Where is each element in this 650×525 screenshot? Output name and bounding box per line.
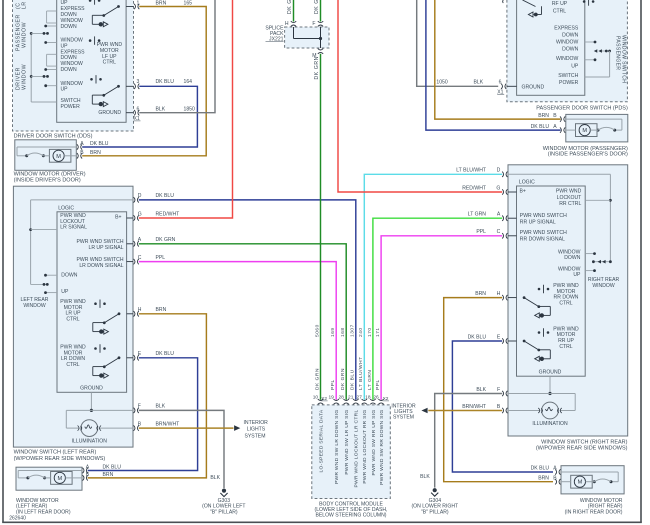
- RRS logic box: [517, 186, 586, 376]
- svg-text:19: 19: [328, 395, 334, 401]
- svg-text:LO-SPEED SERIAL DATA: LO-SPEED SERIAL DATA: [318, 409, 324, 472]
- RRS pin F: [506, 391, 507, 396]
- DDS pin 3: [126, 85, 133, 87]
- svg-text:B: B: [86, 472, 90, 478]
- RRS T contact RR DOWN: [543, 285, 545, 293]
- svg-text:WINDOW: WINDOW: [22, 64, 28, 90]
- svg-text:DOWN: DOWN: [61, 272, 77, 278]
- svg-text:BLK: BLK: [210, 475, 220, 481]
- svg-text:B: B: [553, 476, 557, 482]
- svg-text:DOWN: DOWN: [562, 33, 578, 39]
- svg-text:LOGIC: LOGIC: [58, 205, 74, 211]
- svg-text:B: B: [553, 113, 557, 119]
- svg-text:10: 10: [313, 395, 319, 401]
- svg-text:PWR WND: PWR WND: [556, 188, 582, 194]
- LRS pin F: [134, 408, 135, 413]
- svg-text:A: A: [497, 212, 501, 218]
- svg-text:POWER: POWER: [61, 104, 81, 110]
- LRS switch LR UP (pin H): [118, 312, 121, 315]
- svg-text:RR UP SIGNAL: RR UP SIGNAL: [520, 219, 556, 225]
- DDS pin 6: [126, 112, 133, 114]
- DDS T contact lower: [95, 75, 97, 83]
- svg-text:EXPRESS: EXPRESS: [554, 26, 579, 32]
- svg-text:RR DOWN SIGNAL: RR DOWN SIGNAL: [520, 236, 565, 242]
- svg-text:GROUND: GROUND: [539, 369, 562, 375]
- svg-text:BRN: BRN: [475, 291, 486, 297]
- svg-text:26: 26: [373, 395, 379, 401]
- passenger motor pin A: [564, 127, 565, 132]
- svg-text:DK BLU: DK BLU: [531, 124, 550, 130]
- svg-text:(INSIDE DRIVER'S DOOR): (INSIDE DRIVER'S DOOR): [14, 178, 81, 184]
- LRS pin B: [134, 425, 135, 430]
- svg-text:UP: UP: [573, 272, 581, 278]
- left rear motor pin A: [83, 468, 84, 473]
- svg-text:DK BLU: DK BLU: [468, 334, 487, 340]
- RRS window up contact: [585, 270, 594, 272]
- svg-text:UP: UP: [61, 289, 69, 295]
- svg-text:PWR WND LOCKOUT RR SIG: PWR WND LOCKOUT RR SIG: [362, 410, 368, 484]
- svg-text:WINDOW: WINDOW: [23, 303, 46, 309]
- LRS illumination lamp: [66, 409, 133, 411]
- PDS T contact: [588, 0, 590, 6]
- svg-text:LR DOWN SIGNAL: LR DOWN SIGNAL: [79, 263, 123, 269]
- passenger motor pin B: [564, 116, 565, 121]
- svg-text:BLK: BLK: [420, 474, 430, 480]
- svg-text:H: H: [497, 291, 501, 297]
- window switch (right rear) outer box: [508, 165, 628, 436]
- svg-text:B: B: [138, 421, 142, 427]
- svg-text:1307: 1307: [350, 324, 356, 337]
- wire PPL 169 LRS C to BCM pin19: [139, 262, 336, 400]
- svg-text:BRN: BRN: [90, 150, 101, 156]
- LRS T contact LR UP: [99, 300, 101, 308]
- svg-text:WINDOW: WINDOW: [556, 39, 579, 45]
- svg-text:(IN RIGHT REAR DOOR): (IN RIGHT REAR DOOR): [565, 509, 623, 515]
- svg-text:SYSTEM: SYSTEM: [393, 414, 414, 420]
- svg-text:DOWN: DOWN: [564, 255, 580, 261]
- svg-text:DOWN: DOWN: [61, 12, 77, 18]
- svg-text:LEFT REAR: LEFT REAR: [21, 297, 49, 303]
- svg-text:F: F: [497, 387, 500, 393]
- svg-text:SWITCH: SWITCH: [558, 73, 578, 79]
- svg-text:LIGHTS: LIGHTS: [247, 427, 266, 433]
- driver motor pin B: [77, 153, 78, 158]
- wire DK GRN 5060 splice M to BCM pin10: [320, 54, 322, 400]
- wire BRN RRS H to right rear motor B: [444, 298, 553, 482]
- window motor (passenger) box: [566, 114, 628, 141]
- RRS T contact RR UP: [543, 328, 545, 336]
- svg-text:D: D: [497, 168, 501, 174]
- svg-text:BLK: BLK: [476, 387, 486, 393]
- LRS logic box: [57, 212, 127, 392]
- svg-text:C: C: [138, 255, 142, 261]
- svg-text:GROUND: GROUND: [522, 84, 545, 90]
- svg-text:171: 171: [375, 327, 381, 337]
- svg-text:WINDOW: WINDOW: [22, 22, 28, 48]
- svg-text:(INSIDE PASSENGER'S DOOR): (INSIDE PASSENGER'S DOOR): [548, 152, 628, 158]
- svg-text:BELOW STEERING COLUMN): BELOW STEERING COLUMN): [315, 513, 386, 519]
- svg-text:6: 6: [499, 80, 502, 86]
- svg-text:165: 165: [184, 1, 193, 7]
- svg-text:PPL: PPL: [330, 379, 336, 390]
- splice pin M: [318, 49, 323, 50]
- svg-text:DK GRN: DK GRN: [287, 0, 293, 14]
- svg-text:B+: B+: [520, 188, 526, 194]
- RRS pin B: [506, 408, 507, 413]
- wire DK BLU 164 DDS pin3 to driver motor A: [82, 86, 197, 147]
- svg-text:28: 28: [338, 395, 344, 401]
- svg-text:DK GRN: DK GRN: [314, 368, 320, 390]
- svg-text:ILLUMINATION: ILLUMINATION: [72, 439, 108, 445]
- right rear motor pin B: [559, 479, 560, 484]
- svg-text:WINDOW SWITCH: WINDOW SWITCH: [621, 35, 627, 83]
- BCM pin 28 PWR WND SW LR UP SIG: [344, 403, 349, 404]
- wire BRN 165 DDS pin1 to driver motor B: [82, 7, 206, 156]
- svg-text:A: A: [138, 237, 142, 243]
- svg-text:DK GRN: DK GRN: [314, 0, 320, 14]
- svg-text:5060: 5060: [314, 324, 320, 337]
- PDS inner switch box: [517, 0, 585, 95]
- svg-text:PWR WND SWITCH: PWR WND SWITCH: [520, 230, 567, 236]
- svg-text:(W/POWER REAR SIDE WINDOWS): (W/POWER REAR SIDE WINDOWS): [536, 446, 628, 452]
- svg-text:DOWN: DOWN: [61, 67, 77, 73]
- svg-text:GROUND: GROUND: [80, 386, 103, 392]
- LRS pin G: [127, 217, 133, 219]
- svg-text:E: E: [138, 351, 142, 357]
- svg-text:H: H: [138, 307, 142, 313]
- svg-text:(W/POWER REAR SIDE WINDOWS): (W/POWER REAR SIDE WINDOWS): [14, 456, 106, 462]
- svg-text:PWR WND LOCKOUT LR CTRL: PWR WND LOCKOUT LR CTRL: [354, 410, 360, 488]
- BCM pin 19 PWR WND SW LR DOWN SIG: [334, 403, 339, 404]
- svg-text:BRN: BRN: [156, 307, 167, 313]
- svg-text:DK GRN: DK GRN: [156, 237, 176, 243]
- svg-text:PASSENGER: PASSENGER: [615, 36, 621, 70]
- wire DK GRN into splice F: [320, 0, 322, 22]
- svg-text:BRN/WHT: BRN/WHT: [462, 404, 486, 410]
- svg-text:BLK: BLK: [474, 80, 484, 86]
- svg-text:PASSENGER DOOR SWITCH (PDS): PASSENGER DOOR SWITCH (PDS): [536, 106, 628, 112]
- svg-text:PWR WND SW RR DOWN SIG: PWR WND SW RR DOWN SIG: [379, 410, 385, 485]
- right rear motor pin A: [559, 469, 560, 474]
- splice pin F: [318, 25, 323, 26]
- LRS pin D: [134, 197, 135, 202]
- wire BRN to passenger motor B: [435, 0, 561, 119]
- BCM pin 18 PWR WND SW RR UP SIG: [370, 403, 375, 404]
- RRS pin G: [508, 191, 517, 193]
- svg-text:240: 240: [358, 327, 364, 337]
- DDS switch for pin 1: [117, 5, 120, 8]
- DDS pin 1: [126, 6, 133, 8]
- svg-text:"B" PILLAR): "B" PILLAR): [421, 509, 449, 515]
- svg-text:G: G: [138, 211, 142, 217]
- splice pack JX221 box: [285, 27, 329, 48]
- svg-text:WINDOW MOTOR (DRIVER): WINDOW MOTOR (DRIVER): [14, 171, 86, 177]
- svg-text:18: 18: [365, 395, 371, 401]
- svg-text:DK BLU: DK BLU: [156, 79, 175, 85]
- RRS pin A: [508, 217, 517, 219]
- wire DK BLU RRS E to right rear motor A: [452, 341, 553, 472]
- svg-text:168: 168: [340, 327, 346, 337]
- svg-text:DRIVER DOOR SWITCH (DDS): DRIVER DOOR SWITCH (DDS): [14, 134, 93, 140]
- svg-text:B: B: [497, 404, 501, 410]
- BCM pin 27 PWR WND LOCKOUT RR SIG: [362, 403, 367, 404]
- svg-text:(IN LEFT REAR DOOR): (IN LEFT REAR DOOR): [16, 509, 71, 515]
- svg-text:BRN: BRN: [538, 113, 549, 119]
- svg-text:WINDOW SWITCH (RIGHT REAR): WINDOW SWITCH (RIGHT REAR): [541, 439, 628, 445]
- wire BLK LRS F to ground G303: [139, 410, 224, 488]
- svg-text:6: 6: [137, 106, 140, 112]
- svg-text:DK BLU: DK BLU: [531, 466, 550, 472]
- PDS B+ bus and contacts: [585, 41, 595, 43]
- svg-text:PPL: PPL: [375, 379, 381, 390]
- wire BLK 1050 to PDS pin6: [417, 0, 499, 86]
- svg-text:ILLUMINATION: ILLUMINATION: [532, 421, 568, 427]
- LRS pin A: [127, 243, 133, 245]
- svg-text:169: 169: [330, 327, 336, 337]
- ground G303: [222, 489, 226, 493]
- LRS T contact LR DOWN: [99, 344, 101, 352]
- svg-text:RED/WHT: RED/WHT: [156, 211, 180, 217]
- LRS switch LR DOWN (pin E): [118, 356, 121, 359]
- svg-text:UP: UP: [61, 87, 69, 93]
- wire BRN/WHT RRS B to interior lights: [428, 410, 502, 412]
- svg-text:PPL: PPL: [476, 229, 486, 235]
- wire DK GRN into splice H: [293, 0, 295, 22]
- svg-text:BRN: BRN: [103, 472, 114, 478]
- window motor (left rear) box: [16, 467, 82, 490]
- LRS lockout bus: [31, 199, 133, 201]
- LRS window down contact: [46, 274, 58, 276]
- svg-text:DK BLU: DK BLU: [156, 351, 175, 357]
- BCM pin 21 PWR WND LOCKOUT LR CTRL: [353, 403, 358, 404]
- passenger door switch (PDS) outer box: [507, 0, 628, 102]
- BCM pin 26 PWR WND SW RR DOWN SIG: [378, 403, 383, 404]
- svg-text:A: A: [553, 466, 557, 472]
- splice internal link: [293, 27, 295, 39]
- svg-text:CTRL: CTRL: [66, 317, 79, 323]
- svg-text:CTRL: CTRL: [66, 362, 79, 368]
- svg-text:1050: 1050: [436, 80, 447, 86]
- svg-text:LR SIGNAL: LR SIGNAL: [60, 225, 87, 231]
- driver motor pin A: [77, 144, 78, 149]
- wire LT GRN 170 RRS A to BCM pin18: [373, 218, 502, 400]
- svg-text:21: 21: [348, 395, 354, 401]
- svg-text:LR UP SIGNAL: LR UP SIGNAL: [88, 245, 123, 251]
- wire RED/WHT RRS G from top: [338, 0, 502, 192]
- RRS lockout bus: [508, 173, 610, 175]
- wire LT BLU/WHT 240 RRS D to BCM pin27: [364, 174, 502, 399]
- svg-text:M: M: [582, 128, 587, 134]
- svg-text:LOGIC: LOGIC: [519, 179, 535, 185]
- svg-text:M: M: [578, 480, 583, 486]
- svg-text:E: E: [497, 334, 501, 340]
- BCM pin 10 LO-SPEED SERIAL DATA: [318, 403, 323, 404]
- left rear motor pin B: [83, 475, 84, 480]
- splice pin H: [291, 25, 296, 26]
- wire DK BLU LRS D to BCM pin21: [139, 200, 356, 400]
- RRS switch RR DOWN (pin H): [523, 296, 526, 299]
- svg-text:LT BLU/WHT: LT BLU/WHT: [456, 168, 486, 174]
- svg-text:M: M: [57, 476, 62, 482]
- svg-text:POWER: POWER: [559, 80, 579, 86]
- svg-text:170: 170: [367, 327, 373, 337]
- svg-text:B: B: [80, 150, 84, 156]
- svg-text:CTRL: CTRL: [559, 300, 572, 306]
- svg-text:BRN: BRN: [538, 476, 549, 482]
- LRS pin H: [127, 313, 133, 315]
- wire PPL 171 RRS C to BCM pin26: [381, 236, 502, 400]
- svg-text:G: G: [496, 185, 500, 191]
- svg-text:1: 1: [137, 1, 140, 7]
- svg-text:3: 3: [137, 79, 140, 85]
- wire DK BLU LRS E to left rear motor A: [88, 358, 198, 471]
- svg-text:CTRL: CTRL: [553, 8, 566, 14]
- svg-text:LOCKOUT: LOCKOUT: [557, 195, 582, 201]
- svg-text:A: A: [86, 464, 90, 470]
- RRS window down contact: [585, 253, 594, 255]
- svg-text:BLK: BLK: [156, 106, 166, 112]
- svg-text:DK GRN: DK GRN: [340, 368, 346, 390]
- svg-text:PPL: PPL: [156, 255, 166, 261]
- svg-text:M: M: [56, 154, 61, 160]
- svg-text:RF UP: RF UP: [552, 1, 568, 7]
- PDS switch fragment top: [523, 0, 536, 7]
- svg-text:PWR WND SWITCH: PWR WND SWITCH: [520, 213, 567, 219]
- window motor (right rear) box: [561, 466, 624, 494]
- svg-text:SYSTEM: SYSTEM: [245, 433, 266, 439]
- LRS window up contact: [46, 292, 58, 294]
- svg-text:27: 27: [357, 395, 363, 401]
- DDS B+ bus and contacts: [30, 33, 32, 102]
- wire BLK RRS F to ground G304: [435, 394, 503, 488]
- wire RED/WHT LRS G from top: [139, 0, 233, 218]
- svg-text:LT GRN: LT GRN: [367, 370, 373, 390]
- svg-text:UP: UP: [571, 63, 579, 69]
- svg-text:RR CTRL: RR CTRL: [559, 201, 581, 207]
- wire BRN/WHT LRS B to interior lights: [139, 427, 234, 429]
- svg-text:H: H: [285, 21, 289, 27]
- DDS inner switch box: [57, 0, 126, 122]
- svg-text:GROUND: GROUND: [98, 110, 121, 116]
- svg-text:"B" PILLAR): "B" PILLAR): [210, 509, 238, 515]
- svg-text:INTERIOR: INTERIOR: [244, 420, 269, 426]
- PDS pin fragment top left: [502, 0, 505, 3]
- svg-text:CTRL: CTRL: [103, 60, 116, 66]
- LRS pin C: [127, 261, 133, 263]
- svg-text:PWR WND SW LR DOWN SIG: PWR WND SW LR DOWN SIG: [334, 410, 340, 485]
- svg-text:DK BLU: DK BLU: [90, 141, 109, 147]
- RRS pin H: [508, 297, 517, 299]
- svg-text:RIGHT REAR: RIGHT REAR: [588, 277, 620, 283]
- svg-text:F: F: [138, 404, 141, 410]
- window motor (driver) box: [15, 140, 77, 171]
- LRS pin E: [127, 357, 133, 359]
- svg-text:164: 164: [184, 79, 193, 85]
- svg-text:LR: LR: [22, 1, 28, 9]
- svg-text:WINDOW SWITCH (LEFT REAR): WINDOW SWITCH (LEFT REAR): [14, 450, 97, 456]
- svg-text:DK GRN: DK GRN: [314, 56, 320, 79]
- svg-text:BRN/WHT: BRN/WHT: [156, 421, 180, 427]
- svg-text:DOWN: DOWN: [61, 24, 77, 30]
- svg-text:A: A: [80, 141, 84, 147]
- svg-text:DK BLU: DK BLU: [156, 193, 175, 199]
- svg-text:PWR WND SW LR UP SIG: PWR WND SW LR UP SIG: [344, 410, 350, 475]
- DDS T contact LF UP ctrl: [94, 36, 96, 44]
- svg-text:DK BLU: DK BLU: [103, 464, 122, 470]
- wire DK BLU to passenger motor A: [426, 0, 561, 130]
- svg-text:BLK: BLK: [156, 404, 166, 410]
- svg-text:BRN: BRN: [156, 1, 167, 7]
- DDS switch for pin 3: [117, 85, 120, 88]
- svg-text:LT GRN: LT GRN: [468, 212, 487, 218]
- svg-text:DK BLU: DK BLU: [350, 369, 356, 390]
- RRS pin C: [508, 235, 517, 237]
- wire BRN LRS H to left rear motor B: [88, 314, 207, 478]
- svg-text:RED/WHT: RED/WHT: [462, 185, 486, 191]
- svg-text:PWR WND SW RR UP SIG: PWR WND SW RR UP SIG: [371, 410, 377, 476]
- svg-text:DOWN: DOWN: [562, 47, 578, 53]
- driver door switch (DDS) outer box: [13, 0, 134, 131]
- svg-text:F: F: [312, 21, 315, 27]
- RRS illumination lamp: [508, 393, 575, 395]
- PDS pin 6: [507, 85, 517, 87]
- svg-text:CTRL: CTRL: [559, 344, 572, 350]
- LRS ground link: [90, 392, 92, 410]
- interior lights system arrow left: [234, 425, 240, 431]
- RRS pin E: [508, 340, 517, 342]
- DDS T contact upper: [94, 0, 96, 5]
- svg-text:D: D: [138, 193, 142, 199]
- svg-text:262640: 262640: [9, 516, 26, 522]
- svg-text:B+: B+: [115, 215, 121, 221]
- svg-text:1850: 1850: [184, 106, 195, 112]
- svg-text:A: A: [553, 124, 557, 130]
- svg-text:C: C: [497, 229, 501, 235]
- svg-text:WINDOW: WINDOW: [592, 283, 615, 289]
- ground G304: [433, 488, 437, 492]
- interior lights system arrow right: [421, 408, 427, 414]
- window switch (left rear) outer box: [13, 186, 133, 447]
- svg-text:LT BLU/WHT: LT BLU/WHT: [358, 356, 364, 390]
- svg-text:WINDOW: WINDOW: [556, 56, 579, 62]
- RRS pin D: [506, 172, 507, 177]
- RRS switch RR UP (pin E): [523, 340, 526, 343]
- wire BLK 1850 DDS pin6 to top: [139, 0, 215, 113]
- body control module box: [312, 405, 391, 499]
- RRS ground link: [549, 376, 551, 393]
- wire DK GRN 168 LRS A to BCM pin28: [139, 244, 346, 400]
